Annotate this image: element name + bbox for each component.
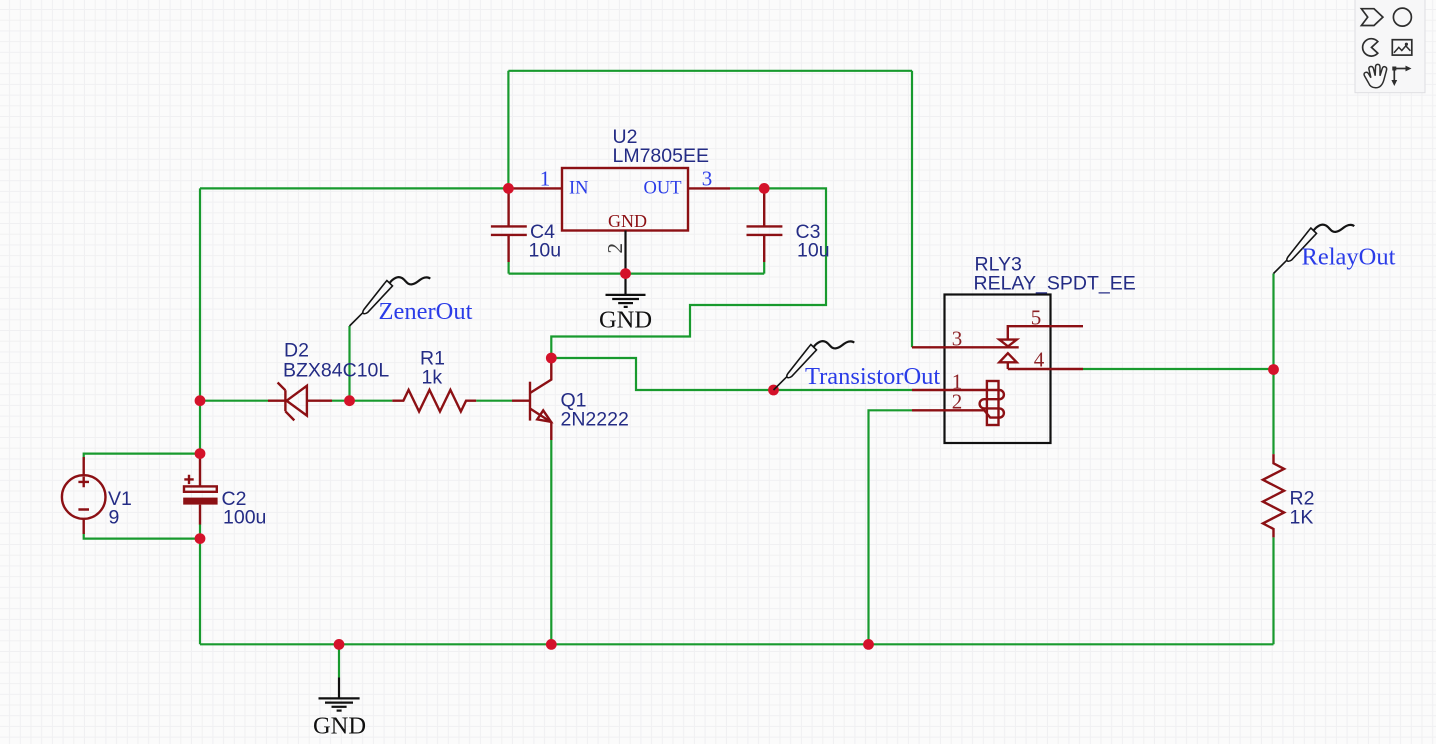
relay pin 5 lead: [1008, 326, 1083, 338]
junction node rail-relay2: [863, 639, 874, 650]
wire relay pin 4 to R2: [1083, 368, 1274, 370]
svg-text:2: 2: [603, 243, 627, 254]
svg-text:9: 9: [109, 507, 120, 529]
wire RelayOut vertical through R2: [1272, 274, 1274, 645]
capacitor C4 plates: [491, 226, 527, 235]
svg-text:ZenerOut: ZenerOut: [379, 298, 473, 325]
toolbar arc icon: [1363, 39, 1378, 56]
relay NC contact triangle: [999, 340, 1016, 347]
wire Q1 emitter to ground rail: [550, 440, 552, 644]
resistor R2: [1263, 454, 1284, 537]
transistor Q1 base bar: [529, 382, 531, 421]
svg-text:GND: GND: [608, 211, 647, 231]
regulator U2 body: [562, 168, 688, 231]
svg-text:2: 2: [952, 390, 963, 414]
wire ground stub bottom: [338, 644, 340, 677]
wire bottom ground rail: [200, 643, 1274, 645]
svg-text:OUT: OUT: [644, 178, 682, 198]
svg-text:LM7805EE: LM7805EE: [613, 145, 709, 167]
capacitor C2 bottom plate: [183, 498, 217, 505]
wire vertical down to node A: [507, 71, 509, 189]
junction node OUT: [759, 183, 770, 194]
junction node rail-gnd: [334, 639, 345, 650]
toolbar axis icon: [1391, 66, 1411, 86]
junction node V1 plus: [195, 448, 206, 459]
capacitor C2 leads: [199, 454, 201, 525]
wire Q1 collector to relay pin 1: [551, 358, 912, 390]
svg-text:GND: GND: [599, 307, 652, 334]
toolbar circle icon: [1393, 8, 1411, 26]
U2 pin 1 lead: [512, 187, 562, 189]
wire V1 plus to rail: [84, 454, 200, 460]
U2 pin 3 lead: [688, 187, 730, 189]
wire zener cathode to R1: [332, 400, 392, 402]
wire regulator OUT to Q1 collector: [551, 188, 826, 358]
svg-text:10u: 10u: [797, 239, 830, 261]
svg-text:GND: GND: [313, 713, 366, 740]
relay RLY3 body: [945, 295, 1051, 444]
capacitor C2 polarity plus: [184, 475, 193, 484]
wire rail to zener anode: [200, 400, 268, 402]
transistor Q1 collector: [530, 358, 551, 393]
junction node rail-emitter: [546, 639, 557, 650]
relay coil core: [987, 381, 999, 425]
wire left rail vertical: [199, 188, 201, 644]
svg-text:4: 4: [1034, 348, 1045, 372]
svg-text:TransistorOut: TransistorOut: [805, 363, 940, 390]
relay pin 3 lead with bar: [912, 346, 1019, 348]
svg-text:BZX84C10L: BZX84C10L: [283, 360, 389, 382]
svg-text:3: 3: [702, 167, 713, 191]
svg-text:1: 1: [540, 167, 551, 191]
svg-text:RelayOut: RelayOut: [1302, 244, 1396, 271]
junction node A: [503, 183, 514, 194]
voltage source V1 circle: [62, 475, 106, 519]
svg-text:1k: 1k: [422, 367, 443, 389]
relay coil winding pins 1 2: [912, 390, 1004, 418]
capacitor C3 plates: [747, 226, 783, 235]
wire C4 C3 bottom link: [509, 262, 765, 274]
junction node rail-zener: [195, 395, 206, 406]
wire ZenerOut probe stub: [348, 326, 350, 401]
capacitor C4 leads: [507, 188, 509, 262]
svg-text:5: 5: [1031, 306, 1042, 330]
svg-text:1K: 1K: [1290, 507, 1314, 529]
transistor Q1 emitter arrow: [537, 410, 551, 421]
U2 pin 2 lead: [624, 231, 626, 295]
capacitor C3 leads: [763, 188, 765, 262]
junction node RelayOut-R2: [1268, 364, 1279, 375]
toolbar hand icon: [1364, 64, 1387, 87]
wire V1 minus to rail: [84, 533, 200, 539]
junction node V1 minus: [195, 533, 206, 544]
resistor R1: [392, 390, 476, 412]
ground symbol (bottom): [319, 678, 360, 711]
toolbar chevron icon: [1361, 9, 1383, 26]
wire node A to left rail: [200, 187, 508, 189]
probe RelayOut: [1274, 225, 1355, 274]
zener diode D2 cathode bar: [268, 383, 294, 421]
junction node collector: [546, 353, 557, 364]
svg-text:D2: D2: [284, 340, 309, 362]
zener diode D2 anode lead: [307, 400, 332, 402]
zener diode D2 triangle: [287, 386, 307, 416]
ground symbol (regulator): [606, 295, 646, 307]
wire R1 to Q1 base: [476, 400, 512, 402]
relay pin 4 lead: [1008, 362, 1083, 369]
toolbar image icon: [1392, 40, 1412, 55]
probe TransistorOut: [774, 341, 855, 390]
voltage source V1 plus minus: [78, 477, 89, 510]
svg-text:2N2222: 2N2222: [561, 409, 629, 431]
wire relay pin 2 to ground rail: [869, 410, 913, 644]
junction node ZenerOut: [344, 395, 355, 406]
wire vertical down to relay pin 3: [911, 71, 913, 348]
probe ZenerOut: [350, 277, 431, 326]
relay NO contact triangle: [999, 353, 1016, 362]
wire C2 bottom stub: [199, 524, 201, 539]
transistor Q1 base lead: [512, 400, 530, 402]
junction node regulator ground: [620, 268, 631, 279]
capacitor C2 top plate: [184, 486, 217, 491]
svg-text:100u: 100u: [223, 507, 266, 529]
transistor Q1 emitter: [530, 409, 551, 441]
junction node TransistorOut: [768, 385, 779, 396]
wire top horizontal VIN to relay common: [508, 70, 912, 72]
svg-text:RELAY_SPDT_EE: RELAY_SPDT_EE: [974, 273, 1136, 295]
toolbar panel: [1355, 0, 1425, 93]
svg-text:10u: 10u: [529, 239, 562, 261]
svg-text:3: 3: [952, 327, 963, 351]
voltage source V1 leads: [82, 457, 84, 534]
svg-text:IN: IN: [569, 178, 589, 198]
